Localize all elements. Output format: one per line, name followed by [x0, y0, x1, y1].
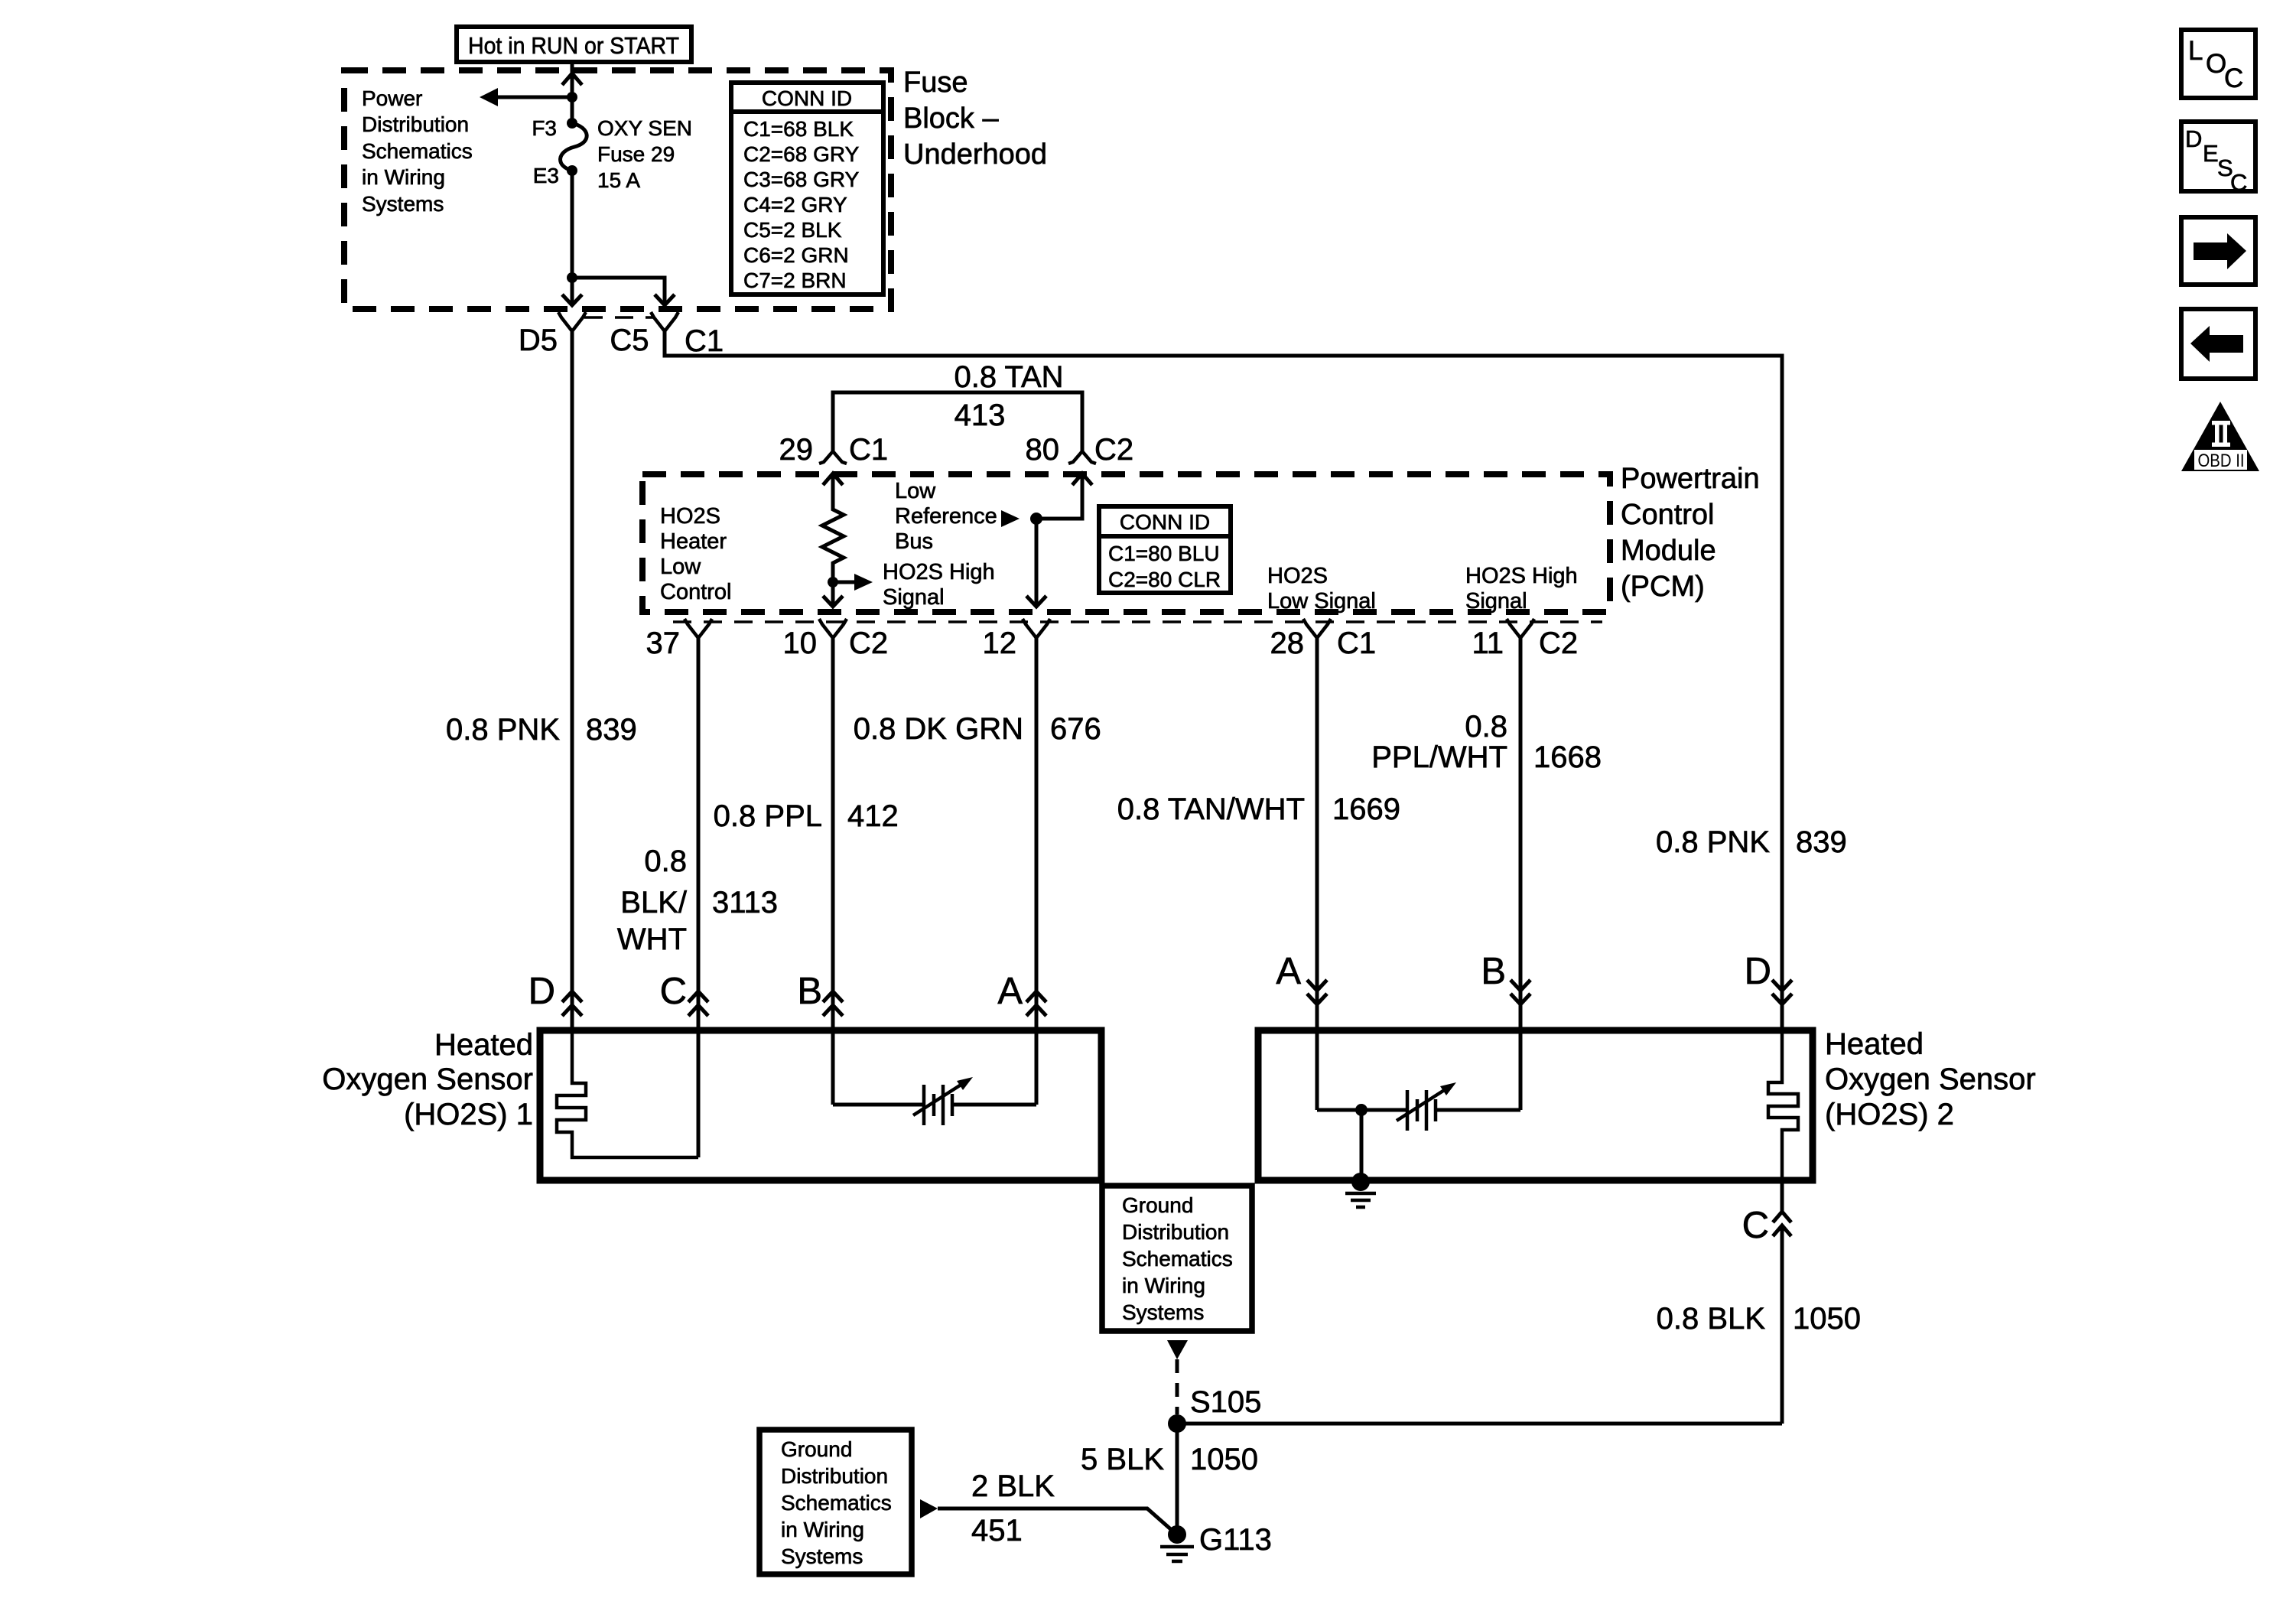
svg-text:0.8: 0.8: [644, 845, 687, 878]
ground distribution box (bottom left): [759, 1430, 912, 1574]
svg-text:Heated: Heated: [1825, 1027, 1924, 1061]
svg-text:HO2S High: HO2S High: [1465, 564, 1578, 588]
svg-text:Oxygen Sensor: Oxygen Sensor: [1825, 1063, 2036, 1096]
svg-text:CONN ID: CONN ID: [1120, 510, 1210, 534]
svg-text:OBD II: OBD II: [2198, 451, 2245, 471]
heater element HO2S2: [1768, 1030, 1798, 1180]
svg-text:A: A: [1276, 951, 1301, 992]
pointer: HO2S High Signal: [833, 574, 873, 591]
svg-text:C2: C2: [849, 626, 888, 660]
fuse block underhood dashed box: [344, 70, 891, 309]
svg-text:Oxygen Sensor: Oxygen Sensor: [322, 1063, 533, 1096]
arrow up into PCM pin 80: [1072, 474, 1092, 485]
svg-text:Fuse: Fuse: [903, 67, 968, 99]
svg-text:HO2S High: HO2S High: [883, 560, 995, 584]
svg-text:D: D: [528, 971, 555, 1012]
wire: S105 to 0.8 BLK 1050: [1177, 1422, 1782, 1426]
nav icon forward arrow: [2181, 217, 2255, 285]
label: Powertrain Control Module (PCM): [1621, 463, 1760, 603]
svg-text:Schematics: Schematics: [362, 139, 473, 163]
svg-text:12: 12: [983, 626, 1017, 660]
HO2S2 box: [1258, 1030, 1813, 1180]
arrow up at fuse block top edge: [562, 73, 582, 85]
svg-text:15 A: 15 A: [597, 168, 640, 192]
svg-text:D: D: [2185, 125, 2202, 152]
wire: feed from Hot in RUN into fuse block: [571, 62, 574, 123]
connector B at HO2S2: [1481, 951, 1530, 1004]
wire 413: 0.8 TAN loop from PCM 29 C1 to 80 C2: [833, 360, 1082, 451]
arrow down at fuse block bottom (C1): [655, 295, 675, 305]
wire 412: 0.8 PPL from pin 10 to HO2S1 B: [714, 638, 899, 1105]
svg-text:10: 10: [783, 626, 818, 660]
svg-text:Schematics: Schematics: [1122, 1247, 1233, 1271]
svg-text:5 BLK: 5 BLK: [1081, 1443, 1164, 1476]
svg-text:C1: C1: [1337, 626, 1376, 660]
svg-text:WHT: WHT: [617, 923, 687, 956]
wire 451: 2 BLK to G113: [938, 1469, 1173, 1548]
junction below fuse: [567, 272, 577, 283]
svg-text:C5=2 BLK: C5=2 BLK: [743, 218, 842, 242]
pointer from ground distribution (left): [920, 1499, 938, 1518]
svg-text:Schematics: Schematics: [781, 1491, 892, 1515]
wire: fuse output to splice: [571, 171, 574, 305]
connector face dashed line below PCM: [673, 620, 1602, 623]
label: HO2S Low Signal: [1267, 564, 1376, 613]
svg-text:839: 839: [1796, 825, 1847, 859]
svg-text:413: 413: [954, 399, 1006, 432]
connector face dashed line below fuse block: [584, 316, 653, 319]
svg-text:C3=68 GRY: C3=68 GRY: [743, 168, 860, 191]
svg-text:676: 676: [1050, 712, 1101, 746]
OBD II icon: [2181, 402, 2259, 471]
svg-text:1050: 1050: [1793, 1302, 1861, 1336]
svg-text:C2: C2: [1094, 433, 1133, 467]
pointer from ground distribution to S105: [1167, 1340, 1188, 1359]
ground G113: [1160, 1523, 1272, 1561]
junction at battery feed: [567, 92, 577, 103]
wire: branch to C1: [572, 278, 665, 305]
CONN ID table (PCM): [1099, 506, 1231, 593]
svg-text:80: 80: [1026, 433, 1060, 467]
svg-text:0.8: 0.8: [1465, 710, 1507, 744]
svg-text:2 BLK: 2 BLK: [971, 1469, 1055, 1503]
wire: low reference bus to pin 80: [1036, 474, 1082, 519]
svg-text:C: C: [660, 971, 687, 1012]
svg-text:(PCM): (PCM): [1621, 571, 1705, 603]
HO2S1 box: [540, 1030, 1101, 1180]
svg-text:Systems: Systems: [362, 192, 444, 216]
wire 1668: 0.8 PPL/WHT from pin 11 to HO2S2 B: [1371, 638, 1602, 1110]
svg-text:C2=80 CLR: C2=80 CLR: [1108, 568, 1221, 591]
wire: HO2S2 heater return below box: [1781, 1180, 1784, 1212]
svg-text:0.8 BLK: 0.8 BLK: [1657, 1302, 1766, 1336]
svg-text:Signal: Signal: [883, 585, 945, 610]
svg-text:451: 451: [971, 1514, 1023, 1548]
svg-text:HO2S: HO2S: [1267, 564, 1328, 588]
connector B at HO2S1: [797, 971, 843, 1016]
junction at resistor bottom: [828, 577, 838, 587]
splice S105: [1168, 1385, 1261, 1433]
connector pin 37: [646, 619, 713, 660]
svg-text:Systems: Systems: [1122, 1300, 1204, 1324]
svg-text:C: C: [2224, 63, 2243, 93]
svg-text:BLK/: BLK/: [620, 886, 688, 919]
svg-text:HO2S: HO2S: [660, 504, 720, 529]
svg-text:3113: 3113: [712, 886, 778, 919]
svg-text:CONN ID: CONN ID: [762, 86, 852, 110]
svg-text:E: E: [2203, 140, 2219, 167]
pointer: Low Reference Bus: [1001, 510, 1020, 527]
svg-text:C5: C5: [610, 324, 649, 357]
svg-text:(HO2S) 2: (HO2S) 2: [1825, 1098, 1954, 1131]
connector C at HO2S1: [660, 971, 708, 1016]
svg-text:Power: Power: [362, 86, 422, 110]
svg-text:C1: C1: [849, 433, 888, 467]
wire 1669: 0.8 TAN/WHT from pin 28 to HO2S2 A: [1117, 638, 1400, 1110]
nav icon LOC: [2181, 30, 2255, 98]
connector pin 10 C2: [783, 619, 889, 660]
ground distribution box (middle): [1102, 1186, 1252, 1331]
svg-text:Distribution: Distribution: [781, 1464, 888, 1488]
svg-text:Module: Module: [1621, 535, 1716, 567]
wire: low reference to pin 12: [1035, 519, 1039, 607]
svg-text:D: D: [1745, 951, 1771, 992]
dashed wire to S105: [1176, 1359, 1179, 1414]
resistor: HO2S heater low control: [822, 474, 844, 607]
connector C at HO2S2: [1742, 1205, 1791, 1246]
label: Low Reference Bus: [895, 479, 997, 554]
svg-text:0.8 PNK: 0.8 PNK: [1656, 825, 1770, 859]
wire 1050: 5 BLK from S105 to G113: [1081, 1424, 1258, 1533]
connector pin 80 C2 (PCM top): [1026, 433, 1134, 467]
svg-text:1668: 1668: [1533, 740, 1602, 774]
svg-text:Powertrain: Powertrain: [1621, 463, 1760, 495]
wire 676: 0.8 DK GRN from pin 12 to HO2S1 A: [854, 638, 1101, 1105]
svg-text:Hot in RUN or START: Hot in RUN or START: [468, 33, 679, 59]
svg-text:F3: F3: [532, 116, 557, 140]
connector C5 / C1: [610, 312, 724, 358]
svg-text:1669: 1669: [1332, 792, 1400, 826]
svg-text:Control: Control: [1621, 499, 1715, 531]
arrow down to PCM pin 12: [1026, 596, 1046, 607]
svg-text:PPL/WHT: PPL/WHT: [1371, 740, 1507, 774]
wire 1050: 0.8 BLK from HO2S2 C to S105: [1657, 1225, 1861, 1424]
svg-text:Bus: Bus: [895, 529, 933, 554]
svg-text:28: 28: [1270, 626, 1305, 660]
svg-text:C: C: [1742, 1205, 1769, 1246]
svg-text:Low: Low: [660, 555, 701, 579]
svg-text:G113: G113: [1199, 1523, 1272, 1557]
connector pin 12: [983, 619, 1051, 660]
label: Heated Oxygen Sensor (HO2S) 1: [322, 1028, 533, 1131]
svg-text:Block –: Block –: [903, 103, 999, 135]
label: HO2S Heater Low Control: [660, 504, 732, 604]
sensing element (variable) HO2S2: [1317, 1082, 1520, 1131]
label: HO2S High Signal (right): [1465, 564, 1578, 613]
svg-text:C1=80 BLU: C1=80 BLU: [1108, 542, 1220, 565]
svg-text:0.8 TAN: 0.8 TAN: [954, 360, 1063, 394]
svg-text:in Wiring: in Wiring: [362, 165, 445, 189]
svg-text:A: A: [997, 971, 1023, 1012]
connector D at HO2S1: [528, 971, 582, 1016]
connector pin 28 C1: [1270, 619, 1377, 660]
svg-text:1050: 1050: [1190, 1443, 1258, 1476]
svg-text:Reference: Reference: [895, 504, 997, 529]
svg-text:E3: E3: [533, 164, 559, 187]
svg-text:in Wiring: in Wiring: [1122, 1274, 1205, 1297]
svg-text:Signal: Signal: [1465, 589, 1527, 613]
svg-text:C: C: [2230, 169, 2247, 196]
label: Fuse Block - Underhood: [903, 67, 1047, 171]
svg-text:C7=2 BRN: C7=2 BRN: [743, 268, 847, 292]
svg-text:Heater: Heater: [660, 529, 727, 554]
CONN ID table (fuse block): [731, 83, 883, 295]
svg-text:C1=68 BLK: C1=68 BLK: [743, 117, 854, 141]
sensing element (variable) HO2S1: [833, 1077, 1036, 1125]
ground: HO2S2 case ground: [1345, 1193, 1376, 1207]
label: HO2S High Signal (left): [883, 560, 995, 610]
svg-text:29: 29: [779, 433, 814, 467]
connector A at HO2S1: [997, 971, 1046, 1016]
nav icon DESC: [2181, 122, 2255, 196]
svg-text:37: 37: [646, 626, 681, 660]
svg-text:Systems: Systems: [781, 1544, 863, 1568]
svg-text:412: 412: [847, 799, 899, 833]
wire 3113: 0.8 BLK/WHT from pin 37 to HO2S1 C: [617, 638, 778, 1157]
svg-text:C6=2 GRN: C6=2 GRN: [743, 243, 849, 267]
label: Power Distribution Schematics in Wiring Systems: [362, 86, 473, 216]
svg-text:Heated: Heated: [434, 1028, 533, 1062]
svg-text:0.8 PPL: 0.8 PPL: [714, 799, 822, 833]
arrow down to PCM pin 10: [823, 596, 843, 607]
svg-text:C4=2 GRY: C4=2 GRY: [743, 193, 847, 216]
junction in HO2S2: [1355, 1104, 1368, 1116]
connector pin 11 C2: [1472, 619, 1578, 660]
fuse F29: OXY SEN Fuse 29 15 A: [532, 116, 692, 192]
connector pin 29 C1 (PCM top): [779, 433, 889, 467]
svg-text:C2=68 GRY: C2=68 GRY: [743, 142, 860, 166]
svg-text:Distribution: Distribution: [362, 112, 469, 136]
junction on low reference bus: [1030, 513, 1042, 525]
arrow down at fuse block bottom (D5): [562, 295, 582, 305]
svg-text:S105: S105: [1190, 1385, 1261, 1419]
junction on HO2S2 case: [1351, 1173, 1370, 1191]
svg-text:B: B: [797, 971, 822, 1012]
wire 839 left: 0.8 PNK from D5 to HO2S1 D: [446, 331, 637, 1030]
svg-text:Distribution: Distribution: [1122, 1220, 1229, 1244]
arrow up into PCM pin 29: [823, 474, 843, 485]
connector A at HO2S2: [1276, 951, 1327, 1004]
svg-text:Fuse 29: Fuse 29: [597, 142, 675, 166]
svg-text:0.8 PNK: 0.8 PNK: [446, 713, 560, 747]
wire: feed to power distribution (left arrow): [497, 96, 572, 99]
svg-text:C1: C1: [685, 324, 724, 358]
svg-text:D5: D5: [519, 324, 558, 357]
power source box: Hot in RUN or START: [457, 27, 691, 62]
wire: HO2S2 sensor ground to case: [1360, 1110, 1364, 1180]
svg-text:OXY SEN: OXY SEN: [597, 116, 692, 140]
svg-text:839: 839: [586, 713, 637, 747]
svg-text:C2: C2: [1539, 626, 1578, 660]
svg-text:(HO2S) 1: (HO2S) 1: [404, 1098, 533, 1131]
svg-text:B: B: [1481, 951, 1506, 992]
connector D5: [519, 312, 586, 357]
svg-text:0.8 DK GRN: 0.8 DK GRN: [854, 712, 1023, 746]
svg-text:Control: Control: [660, 580, 732, 604]
wire 839 right: 0.8 PNK from C1 to HO2S2 D: [665, 331, 1847, 1030]
PCM dashed box: [642, 474, 1610, 612]
svg-text:Ground: Ground: [781, 1437, 852, 1461]
svg-text:Ground: Ground: [1122, 1193, 1193, 1217]
connector D at HO2S2: [1745, 951, 1792, 1004]
svg-text:0.8 TAN/WHT: 0.8 TAN/WHT: [1117, 792, 1305, 826]
svg-text:Low Signal: Low Signal: [1267, 589, 1376, 613]
heater element HO2S1: [557, 1030, 698, 1157]
svg-text:Underhood: Underhood: [903, 138, 1047, 171]
label: Heated Oxygen Sensor (HO2S) 2: [1825, 1027, 2036, 1131]
nav icon back arrow: [2181, 309, 2255, 379]
svg-text:Low: Low: [895, 479, 936, 503]
svg-text:L: L: [2188, 36, 2203, 66]
svg-text:in Wiring: in Wiring: [781, 1518, 864, 1541]
svg-text:11: 11: [1472, 626, 1504, 660]
